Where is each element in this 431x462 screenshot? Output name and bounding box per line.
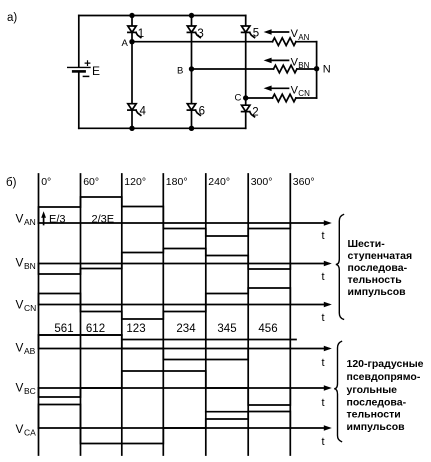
svg-text:3: 3 bbox=[197, 28, 203, 40]
junction dot bottom rail leg B bbox=[189, 126, 194, 131]
brace six-step group bbox=[336, 215, 344, 320]
waveform VCN bbox=[39, 288, 291, 319]
grid line 300deg bbox=[247, 174, 249, 455]
svg-text:CA: CA bbox=[24, 428, 36, 438]
svg-text:AB: AB bbox=[24, 346, 36, 356]
grid line 60deg bbox=[80, 174, 82, 455]
thyristor 6 bbox=[187, 104, 195, 110]
waveform VAN bbox=[39, 197, 291, 236]
wire node C down to thyristor 2 bbox=[245, 98, 247, 105]
svg-text:E: E bbox=[92, 64, 100, 78]
svg-text:импульсов: импульсов bbox=[347, 421, 406, 433]
svg-text:BN: BN bbox=[24, 261, 36, 271]
svg-text:последова-: последова- bbox=[348, 262, 408, 274]
wire thyristor1 to node A bbox=[131, 32, 133, 41]
resistor VBN bbox=[274, 65, 297, 73]
svg-text:ступенчатая: ступенчатая bbox=[348, 250, 413, 262]
axis VBN bbox=[39, 263, 329, 265]
thyristor 2 bbox=[242, 105, 250, 111]
svg-text:V: V bbox=[16, 255, 24, 269]
svg-text:Шести-: Шести- bbox=[348, 238, 386, 250]
svg-text:60°: 60° bbox=[83, 176, 99, 188]
svg-text:t: t bbox=[322, 312, 325, 324]
brace 120-degree group bbox=[334, 341, 341, 441]
svg-text:тельности: тельности bbox=[347, 409, 401, 421]
resistor VAN bbox=[273, 38, 296, 46]
svg-text:234: 234 bbox=[176, 323, 196, 335]
battery plus sign bbox=[85, 61, 90, 66]
svg-text:4: 4 bbox=[140, 106, 147, 118]
svg-text:300°: 300° bbox=[251, 176, 273, 188]
wire leg C upper bbox=[245, 16, 247, 27]
wire node A to resistor VAN bbox=[132, 41, 273, 43]
waveform VBC bbox=[39, 371, 291, 405]
resistor VCN bbox=[273, 94, 296, 102]
wire thyristor3 to node B bbox=[191, 32, 193, 69]
svg-text:6: 6 bbox=[199, 106, 205, 118]
wire thyristor 4 to bottom rail bbox=[131, 110, 133, 128]
svg-text:0°: 0° bbox=[41, 176, 51, 188]
svg-text:5: 5 bbox=[253, 28, 259, 40]
axis VAB bbox=[39, 348, 329, 350]
svg-text:V: V bbox=[16, 380, 24, 394]
battery E bbox=[68, 66, 90, 68]
axis VBC bbox=[39, 387, 329, 389]
text 120-degree sequence bbox=[347, 358, 424, 433]
svg-text:C: C bbox=[235, 93, 242, 104]
svg-text:180°: 180° bbox=[166, 176, 188, 188]
svg-text:612: 612 bbox=[86, 323, 105, 335]
node C bbox=[243, 95, 248, 100]
svg-text:CN: CN bbox=[24, 303, 36, 313]
svg-text:V: V bbox=[16, 211, 24, 225]
thyristor 3 bbox=[187, 26, 195, 32]
grid line 0deg bbox=[38, 174, 40, 455]
svg-text:120-градусные: 120-градусные bbox=[347, 358, 424, 370]
svg-text:t: t bbox=[322, 397, 325, 409]
degree labels bbox=[41, 176, 314, 188]
svg-text:BC: BC bbox=[24, 386, 36, 396]
pulse numbers row bbox=[54, 323, 277, 335]
wire VCA extra level line over c5 bbox=[206, 411, 248, 413]
svg-text:120°: 120° bbox=[124, 176, 146, 188]
svg-text:V: V bbox=[16, 341, 24, 355]
wire node A down to thyristor 4 bbox=[131, 42, 133, 104]
junction dot bottom rail leg A bbox=[129, 126, 134, 131]
wire top rail bbox=[79, 15, 246, 17]
thyristor 5 bbox=[242, 26, 250, 32]
axis VCA bbox=[39, 427, 329, 429]
svg-text:360°: 360° bbox=[293, 176, 315, 188]
wire leg A upper bbox=[131, 16, 133, 27]
wire node B to resistor VBN bbox=[192, 68, 274, 70]
arrow VAN bbox=[271, 31, 289, 33]
grid line 180deg bbox=[162, 174, 164, 455]
thyristor 4 bbox=[128, 104, 136, 110]
svg-text:последова-: последова- bbox=[347, 397, 407, 409]
svg-text:2/3E: 2/3E bbox=[92, 214, 115, 226]
thyristor 1 bbox=[128, 26, 136, 32]
svg-text:BN: BN bbox=[298, 61, 309, 70]
wire resistor VCN to right bus bbox=[296, 97, 317, 99]
waveform VAB bbox=[39, 335, 249, 360]
svg-text:2: 2 bbox=[252, 107, 258, 119]
waveform VCA bbox=[39, 405, 291, 444]
svg-text:456: 456 bbox=[258, 323, 277, 335]
svg-text:t: t bbox=[322, 436, 325, 448]
grid line 120deg bbox=[121, 174, 123, 455]
svg-text:561: 561 bbox=[54, 323, 73, 335]
svg-text:N: N bbox=[323, 63, 331, 75]
axis VCN bbox=[39, 304, 329, 306]
svg-text:123: 123 bbox=[126, 323, 145, 335]
wire thyristor 6 to bottom rail bbox=[191, 110, 193, 128]
wire node B down to thyristor 6 bbox=[191, 69, 193, 104]
wire bottom rail bbox=[79, 127, 246, 129]
waveform VBN bbox=[39, 249, 291, 275]
svg-text:CN: CN bbox=[298, 89, 310, 98]
arrow VBN bbox=[271, 59, 289, 61]
junction dot top rail leg A bbox=[129, 13, 134, 18]
wire thyristor 2 to bottom rail bbox=[245, 112, 247, 129]
node B bbox=[189, 66, 194, 71]
pulse table bottom border left bbox=[39, 334, 122, 336]
wire leg B upper bbox=[191, 16, 193, 27]
arrow E/3 bbox=[43, 215, 45, 225]
svg-text:E/3: E/3 bbox=[49, 214, 66, 226]
svg-text:V: V bbox=[16, 297, 24, 311]
svg-text:A: A bbox=[122, 38, 129, 49]
pulse table bottom border right bbox=[122, 339, 296, 341]
battery minus sign bbox=[83, 75, 88, 77]
wire resistor VBN to right bus bbox=[297, 68, 317, 70]
svg-text:AN: AN bbox=[24, 217, 36, 227]
svg-text:345: 345 bbox=[217, 323, 236, 335]
wire node C to resistor VCN bbox=[246, 97, 273, 99]
wire resistor VAN to right bus bbox=[296, 41, 317, 43]
svg-text:240°: 240° bbox=[208, 176, 230, 188]
arrow VCN bbox=[271, 87, 289, 89]
text six-step sequence bbox=[348, 238, 413, 298]
svg-text:t: t bbox=[322, 230, 325, 242]
node N bbox=[314, 66, 319, 71]
svg-text:угольные: угольные bbox=[347, 384, 398, 396]
junction dot top rail leg B bbox=[189, 13, 194, 18]
svg-text:t: t bbox=[322, 357, 325, 369]
svg-text:псевдопрямо-: псевдопрямо- bbox=[347, 371, 421, 383]
svg-text:V: V bbox=[16, 422, 24, 436]
svg-text:t: t bbox=[322, 271, 325, 283]
wire right bus bbox=[316, 42, 318, 98]
svg-text:1: 1 bbox=[138, 28, 144, 40]
node A bbox=[129, 39, 134, 44]
grid line 360deg bbox=[289, 174, 291, 455]
wire thyristor5 to node C bbox=[245, 32, 247, 98]
svg-text:B: B bbox=[177, 66, 183, 77]
svg-text:импульсов: импульсов bbox=[348, 286, 407, 298]
svg-text:б): б) bbox=[6, 177, 17, 189]
axis VAN bbox=[39, 222, 329, 224]
svg-text:тельность: тельность bbox=[348, 274, 403, 286]
svg-text:AN: AN bbox=[298, 33, 309, 42]
grid line 240deg bbox=[205, 174, 207, 455]
svg-text:a): a) bbox=[7, 12, 17, 24]
wire left side (battery branch) bbox=[78, 16, 80, 68]
